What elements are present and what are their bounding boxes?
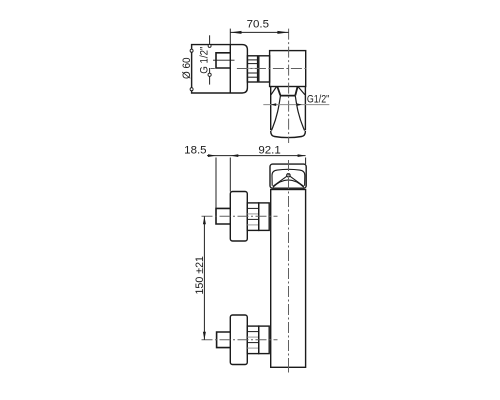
dimension 70.5 arrows (230, 31, 288, 34)
handle bottom arc (273, 180, 304, 187)
leader G 1/2 (top view) (209, 35, 211, 84)
handle center hole (287, 174, 290, 177)
vertical centerline (top view) (288, 29, 290, 143)
dimension 150 line (203, 216, 205, 340)
collar trapezoid (277, 87, 297, 96)
horizontal centerline (top view) (211, 68, 215, 70)
bottom union: wall pipe (217, 332, 231, 348)
port mid line (213, 59, 235, 61)
horizontal centerline right part (top view) (237, 68, 309, 70)
leader G 1/2 dot terminators (208, 44, 211, 47)
svg-text:Ø 60: Ø 60 (181, 57, 193, 79)
body division line (229, 45, 231, 93)
centerline end dash (288, 367, 290, 373)
handle inner face (272, 169, 305, 185)
dimension 70.5 line (230, 29, 288, 45)
vertical centerline (front view) (288, 160, 290, 373)
wall flange body (top view) (192, 45, 248, 93)
nipple thread ribs (247, 60, 257, 77)
shower bell bottom (271, 131, 306, 138)
svg-text:70.5: 70.5 (247, 18, 269, 30)
dimension D60 line (191, 45, 193, 93)
svg-text:18.5: 18.5 (184, 144, 206, 156)
svg-text:150 ±21: 150 ±21 (194, 256, 206, 295)
dimension shared arrow (230, 154, 238, 157)
handle cap outline (270, 164, 306, 188)
bottom nut ribs (247, 332, 258, 349)
bar body (top view) (270, 51, 306, 87)
top union centerline (202, 215, 278, 217)
dimension 18.5 arrow (208, 154, 216, 157)
dimension 18.5 / 92.1 lines (207, 156, 306, 209)
top union: escutcheon (230, 192, 247, 242)
top nut ribs (247, 208, 258, 225)
bottom union: hex nut (259, 326, 270, 354)
bottom union centerline (202, 339, 278, 341)
dimension D60 dot terminators (190, 49, 193, 52)
bottom union: ribbed nut (247, 326, 258, 354)
bottom union: escutcheon (230, 315, 247, 365)
top union: hex nut (259, 203, 270, 231)
shower bell outer sides (271, 87, 306, 131)
bar body (front view) (271, 190, 306, 368)
top union: wall pipe (216, 208, 230, 224)
handle V lines (273, 176, 304, 186)
leader line G1/2 (outlet, top view) (263, 104, 329, 106)
dimension 150 arrows (203, 216, 206, 340)
collar outer flare lines (271, 87, 305, 95)
svg-text:G 1/2": G 1/2" (198, 47, 210, 74)
threaded nipple (247, 56, 257, 82)
dimension 92.1 arrow (298, 154, 306, 157)
svg-text:G1/2": G1/2" (307, 94, 329, 106)
bell inner cone curves (271, 96, 304, 131)
hex nut (top view) (259, 56, 270, 82)
inlet port rectangle (216, 53, 230, 68)
top union: ribbed nut (247, 203, 258, 231)
svg-text:92.1: 92.1 (258, 144, 280, 156)
leader G1/2 arrows (271, 103, 302, 106)
